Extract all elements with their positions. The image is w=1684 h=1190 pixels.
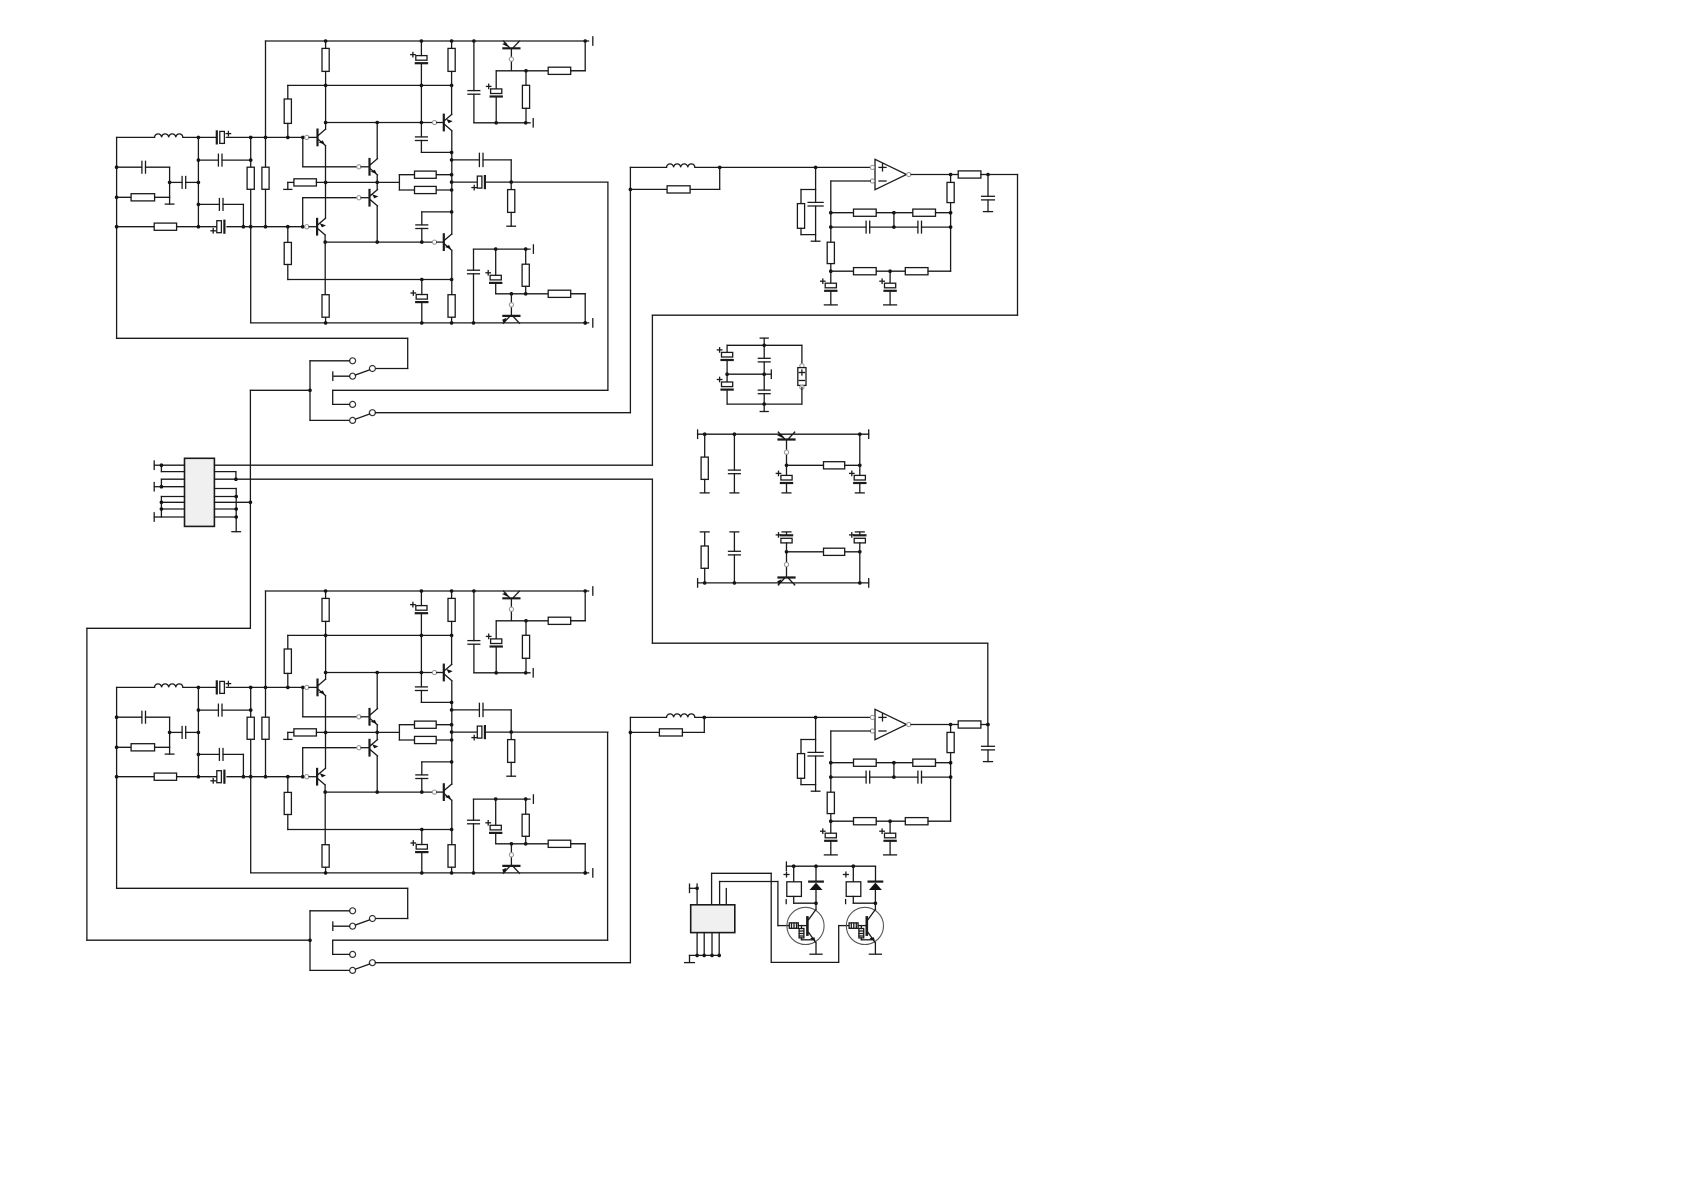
wire <box>496 293 586 295</box>
op-amp U2 <box>875 709 907 739</box>
wire <box>474 122 530 124</box>
switch contact <box>369 916 375 922</box>
junction <box>494 247 498 251</box>
switch contact <box>350 923 356 929</box>
junction <box>242 775 246 779</box>
polarized capacitor C28 <box>411 841 427 852</box>
wire <box>473 824 475 873</box>
junction <box>234 477 238 481</box>
junction <box>888 269 892 273</box>
wire <box>154 486 161 488</box>
wire <box>525 799 527 814</box>
resistor R41 <box>913 209 936 216</box>
wire <box>117 166 142 168</box>
resistor R27 <box>415 736 437 743</box>
junction <box>733 581 737 585</box>
junction <box>324 731 328 735</box>
junction <box>829 819 833 823</box>
terminal <box>532 669 534 677</box>
wire IC pin <box>703 933 705 956</box>
wire <box>117 776 155 778</box>
minus mark <box>845 900 847 904</box>
wire <box>874 890 876 909</box>
junction <box>583 39 587 43</box>
resistor R40 <box>854 209 877 216</box>
wire <box>160 497 162 518</box>
junction <box>762 402 766 406</box>
wire <box>787 464 824 466</box>
wire <box>800 778 802 784</box>
wire <box>421 229 423 243</box>
wire <box>712 872 772 874</box>
pin <box>305 225 309 229</box>
junction <box>197 136 201 140</box>
wire <box>473 644 475 673</box>
junction <box>524 619 528 623</box>
wire <box>226 136 307 138</box>
capacitor C31 <box>468 820 480 824</box>
wire IC pin 1 <box>161 464 184 466</box>
wire IC pin 5 <box>161 496 184 498</box>
wire <box>222 709 251 711</box>
junction <box>160 507 164 511</box>
junction <box>450 871 454 875</box>
ground <box>884 854 897 856</box>
junction <box>949 775 953 779</box>
pin <box>305 685 309 689</box>
wire <box>696 884 698 888</box>
wire <box>325 621 327 679</box>
wire <box>695 166 870 168</box>
wire <box>250 777 252 873</box>
wire <box>510 160 512 182</box>
junction <box>286 686 290 690</box>
wire <box>154 464 161 466</box>
wire <box>473 799 475 820</box>
junction <box>420 634 424 638</box>
junction <box>450 738 454 742</box>
wire <box>117 226 155 228</box>
wire <box>376 673 378 709</box>
wire <box>375 412 630 414</box>
wire <box>325 241 432 243</box>
wire <box>452 181 477 183</box>
terminal <box>760 337 768 339</box>
ground <box>869 953 881 955</box>
wire <box>451 681 453 785</box>
pin <box>432 240 436 244</box>
wire <box>859 483 861 493</box>
capacitor C44 <box>982 746 995 750</box>
wire <box>876 212 913 214</box>
wire <box>771 961 839 963</box>
wire <box>922 776 951 778</box>
junction <box>450 589 454 593</box>
wire <box>421 779 423 793</box>
capacitor C52 <box>729 551 741 555</box>
capacitor C11 <box>416 225 428 229</box>
wire <box>763 404 765 411</box>
ground <box>824 854 837 856</box>
junction <box>286 775 290 779</box>
capacitor C13 <box>468 91 480 95</box>
wire <box>325 591 327 598</box>
switch contact <box>350 417 356 423</box>
wire <box>510 598 512 621</box>
terminal <box>153 483 155 491</box>
wire <box>787 551 824 553</box>
wire <box>117 136 155 138</box>
pin <box>870 715 874 719</box>
junction <box>375 121 379 125</box>
junction <box>829 775 833 779</box>
junction <box>524 292 528 296</box>
wire <box>420 691 422 703</box>
ground <box>984 761 993 763</box>
wire <box>325 41 327 48</box>
resistor R29 <box>284 792 291 814</box>
wire IC pin 14 <box>214 501 250 503</box>
wire <box>682 731 704 733</box>
resistor R9 <box>415 186 437 193</box>
junction <box>792 864 796 868</box>
resistor R33 <box>522 635 529 658</box>
inductor L2 <box>155 684 183 688</box>
plus mark <box>784 872 789 877</box>
wire <box>437 241 444 243</box>
wire <box>793 866 795 882</box>
resistor R7 <box>294 179 317 186</box>
wire negative rail <box>251 872 589 874</box>
wire <box>778 925 789 927</box>
resistor R21 <box>262 717 269 739</box>
capacitor C2 <box>142 161 146 173</box>
junction <box>814 716 818 720</box>
junction <box>450 173 454 177</box>
wire <box>227 776 307 778</box>
transistor Q3 <box>370 159 379 176</box>
wire <box>815 167 817 202</box>
switch contact <box>350 401 356 407</box>
wire <box>324 235 326 242</box>
junction <box>234 515 238 519</box>
wire <box>800 228 802 234</box>
junction <box>702 954 706 958</box>
resistor R31 <box>448 845 455 868</box>
pin <box>870 165 874 169</box>
wire <box>951 174 959 176</box>
junction <box>324 589 328 593</box>
junction <box>234 495 238 499</box>
wire <box>333 953 350 955</box>
pin <box>800 385 804 389</box>
wire <box>361 197 370 199</box>
wire positive rail <box>266 590 589 592</box>
polarized capacitor C51 <box>850 471 866 483</box>
wire <box>800 190 802 204</box>
resistor R47 <box>797 754 804 779</box>
junction <box>115 196 119 200</box>
resistor R43 <box>905 268 928 275</box>
wire <box>86 628 88 940</box>
switch blade <box>355 414 369 419</box>
ground <box>811 240 820 242</box>
wire <box>437 122 444 124</box>
polarized capacitor C6 <box>211 221 224 233</box>
polarized capacitor C1 <box>217 131 231 143</box>
pin <box>305 775 309 779</box>
wire <box>421 852 423 873</box>
wire <box>310 910 350 912</box>
wire <box>571 70 586 72</box>
wire negative rail <box>251 322 589 324</box>
wire <box>607 732 609 940</box>
wire <box>831 180 871 182</box>
wire <box>452 159 480 161</box>
wire <box>398 175 400 190</box>
capacitor C48 <box>758 390 770 394</box>
transistor Q9 <box>318 679 327 696</box>
node input left rail channel 2 <box>0 0 1 1</box>
junction <box>115 225 119 229</box>
wire <box>421 701 451 703</box>
wire <box>496 620 585 622</box>
wire <box>764 373 771 375</box>
wire <box>303 747 359 749</box>
wire <box>1017 175 1019 316</box>
wire <box>421 830 423 845</box>
junction <box>375 671 379 675</box>
wire <box>117 196 132 198</box>
wire <box>483 709 511 711</box>
wire <box>786 532 788 535</box>
wire IC pin 8 <box>161 516 184 518</box>
wire <box>451 800 453 844</box>
junction <box>949 211 953 215</box>
resistor R4 <box>154 223 176 230</box>
wire <box>325 696 327 769</box>
polarized capacitor C54 <box>850 533 866 543</box>
junction <box>472 589 476 593</box>
wire <box>830 814 832 834</box>
wire <box>893 763 895 777</box>
junction <box>450 84 454 88</box>
wire <box>703 717 705 732</box>
wire <box>309 776 317 778</box>
junction <box>420 278 424 282</box>
terminal <box>592 869 594 877</box>
resistor R36 <box>548 840 571 847</box>
junction <box>420 240 424 244</box>
wire <box>288 829 452 831</box>
wire <box>571 293 586 295</box>
junction <box>450 321 454 325</box>
wire <box>474 798 531 800</box>
resistor R10 <box>284 99 291 123</box>
wire <box>801 784 816 786</box>
junction <box>829 211 833 215</box>
transistor Q16 <box>501 866 520 874</box>
wire <box>303 716 359 718</box>
wire <box>510 182 512 190</box>
wire <box>763 362 765 374</box>
junction <box>420 828 424 832</box>
resistor R26 <box>415 721 437 728</box>
junction <box>242 225 246 229</box>
junction <box>450 723 454 727</box>
capacitor C relay 1 <box>787 882 802 897</box>
wire <box>160 479 162 487</box>
wire <box>831 270 854 272</box>
junction <box>814 901 818 905</box>
transistor Q5 <box>444 114 453 130</box>
wire <box>853 902 875 904</box>
junction <box>509 730 513 734</box>
wire IC pin <box>711 873 713 905</box>
resistor R38 <box>797 204 804 229</box>
wire <box>197 687 199 776</box>
capacitor C35 <box>866 221 870 233</box>
inductor L1 <box>155 134 183 138</box>
pin <box>784 562 788 566</box>
wire <box>875 866 877 881</box>
wire <box>870 226 918 228</box>
junction <box>524 671 528 675</box>
wire <box>169 182 171 197</box>
wire <box>727 373 764 375</box>
wire <box>451 867 453 873</box>
resistor R25 <box>294 729 317 736</box>
wire <box>815 206 817 241</box>
switch contact <box>350 358 356 364</box>
wire <box>316 731 399 733</box>
wire <box>830 731 832 792</box>
ground <box>810 953 822 955</box>
wire <box>496 843 586 845</box>
resistor R13 <box>448 295 455 318</box>
junction <box>717 954 721 958</box>
wire <box>815 890 817 909</box>
wire IC pin <box>719 882 721 905</box>
wire <box>928 820 951 822</box>
resistor R base Q11 <box>789 923 798 928</box>
wire <box>334 925 350 927</box>
wire <box>510 732 512 740</box>
wire <box>436 739 451 741</box>
junction <box>949 761 953 765</box>
wire <box>265 189 267 226</box>
terminal <box>782 492 791 494</box>
resistor R35 <box>522 814 529 836</box>
capacitor C3 <box>182 177 186 189</box>
wire <box>287 777 289 793</box>
junction <box>375 790 379 794</box>
wire <box>689 955 691 962</box>
resistor R8 <box>415 171 437 178</box>
junction <box>375 240 379 244</box>
wire <box>287 635 289 649</box>
junction <box>494 671 498 675</box>
wire <box>376 756 378 792</box>
resistor R53 <box>958 721 981 728</box>
inductor L3 <box>667 164 695 168</box>
wire <box>473 591 475 641</box>
switch blade <box>355 964 369 969</box>
wire <box>325 867 327 873</box>
wire <box>584 294 586 323</box>
wire <box>420 41 422 56</box>
resistor R3 <box>262 167 269 189</box>
pin <box>907 722 911 726</box>
op-amp U1 <box>875 159 907 189</box>
wire IC pin 13 <box>214 496 236 498</box>
wire <box>324 785 326 792</box>
wire <box>87 627 250 629</box>
wire <box>436 189 451 191</box>
junction <box>858 432 862 436</box>
junction <box>703 432 707 436</box>
wire <box>473 274 475 323</box>
wire <box>859 543 861 552</box>
node input left rail channel 1 <box>0 0 1 1</box>
junction <box>829 269 833 273</box>
capacitor C19 <box>182 727 186 739</box>
wire <box>777 882 779 926</box>
wire <box>235 489 237 532</box>
wire <box>830 181 832 242</box>
transistor Q18 <box>776 578 795 586</box>
wire <box>437 672 444 674</box>
wire <box>987 643 989 724</box>
wire IC pin 16 <box>214 516 236 518</box>
wire <box>763 394 765 404</box>
resistor R32 <box>508 740 515 763</box>
wire <box>495 647 497 673</box>
terminal <box>855 492 864 494</box>
junction <box>197 731 201 735</box>
junction <box>115 746 119 750</box>
wire <box>763 345 765 358</box>
switch contact <box>369 960 375 966</box>
wire <box>302 198 304 227</box>
wire <box>950 753 952 822</box>
wire <box>154 516 161 518</box>
junction <box>160 501 164 505</box>
wire <box>226 686 307 688</box>
wire IC pin 15 <box>214 508 236 510</box>
resistor R be Q11 <box>799 929 804 938</box>
pin <box>432 670 436 674</box>
wire <box>988 174 1018 176</box>
terminal <box>332 372 334 380</box>
wire <box>859 532 861 535</box>
switch contact <box>350 908 356 914</box>
junction <box>510 842 514 846</box>
wire <box>287 227 289 243</box>
capacitor C18 <box>142 711 146 723</box>
terminal <box>284 188 292 190</box>
wire <box>170 181 183 183</box>
wire <box>525 286 527 294</box>
junction <box>829 225 833 229</box>
wire <box>870 776 918 778</box>
wire <box>451 71 453 114</box>
resistor R17 <box>522 264 529 286</box>
wire <box>197 137 199 226</box>
wire <box>422 761 452 763</box>
wire <box>801 938 803 940</box>
terminal <box>730 531 739 533</box>
